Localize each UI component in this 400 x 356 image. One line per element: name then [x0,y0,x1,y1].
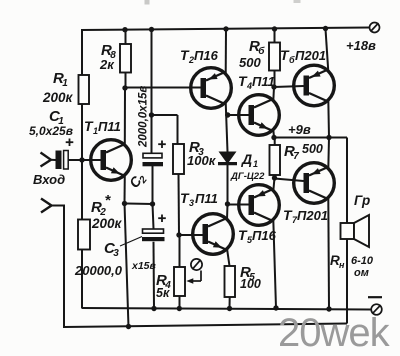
node T4e/R7 [271,135,276,140]
resistor R4 [174,235,185,309]
wire T7 collector to ground rail [327,198,330,310]
node T1e chassis rail [126,324,131,329]
label R8 value [99,42,116,72]
svg-text:20wek: 20wek [278,311,391,355]
terminal -18V ground [368,297,382,315]
wire T1e to C3 node [125,203,153,206]
node junction R1/C1/R2 [79,157,84,162]
label R1 value [42,70,74,105]
svg-text:1: 1 [62,78,68,89]
node R6/T6 base/T4 collector [271,84,276,89]
svg-text:5к: 5к [156,286,170,300]
label T7 type [283,207,328,225]
node T3 base/R3/R4 [176,232,181,237]
svg-text:500: 500 [302,142,323,156]
label +9V [288,122,311,137]
wire speaker to lower rail [346,239,348,324]
node R8/T1 collector/T2 base [122,85,127,90]
resistor R7 [270,138,281,179]
label R3 value [187,139,217,168]
svg-text:Гр: Гр [354,193,370,208]
label C1 value [29,108,73,138]
wire T3 emitter to R5 [227,249,230,267]
wire T5 emitter to rail [273,220,276,309]
svg-text:П201: П201 [297,208,328,223]
wire T3 collector [226,204,229,220]
node T5e rail [273,305,278,310]
wire T5 collector [273,178,274,191]
node C3 rail [151,306,156,311]
node C2/C3 junction [150,201,155,206]
wire T3 base [179,234,203,236]
svg-text:+9в: +9в [288,122,311,137]
svg-text:ДГ-Ц22: ДГ-Ц22 [230,171,265,182]
wire +9V output node [274,138,347,224]
wire T1 collector [124,88,126,147]
label R7 value [284,142,323,162]
node T6c/T7e [326,135,331,140]
svg-text:ом: ом [354,267,369,279]
svg-text:н: н [339,260,345,270]
wire ground rail (upper) [82,308,371,310]
label Rn load [330,253,345,270]
svg-text:Д: Д [241,151,252,167]
speaker Gr [341,215,370,247]
wire left vertical (R1/R2 branch) [81,30,83,309]
transistor T4 [239,95,280,136]
svg-text:П16: П16 [194,48,219,63]
node top rail C2 [149,27,154,32]
svg-text:5,0х25в: 5,0х25в [29,124,73,138]
wire R3 to T3 base node [178,174,181,235]
wire input ground to lower rail [51,205,65,329]
wire chassis rail (lower) [64,324,347,328]
wire T2 collector to diode [226,103,228,152]
label R6 value [239,38,265,70]
svg-text:П11: П11 [252,74,275,89]
svg-text:7: 7 [293,151,299,162]
svg-text:2000,0х15в: 2000,0х15в [138,86,150,148]
svg-text:х15в: х15в [131,260,157,272]
svg-text:6-10: 6-10 [351,255,374,267]
input terminal upper arrow [41,153,52,167]
label C2 [126,169,150,193]
node top rail T2e [223,26,228,31]
svg-text:П16: П16 [252,228,277,243]
svg-text:20000,0: 20000,0 [74,263,123,278]
label T4 type [238,73,275,91]
wire faint crop mark left [145,0,150,5]
watermark 20wek [278,311,391,355]
resistor R8 [120,30,131,88]
terminal +18V [370,23,380,33]
svg-text:Вход: Вход [33,172,65,187]
resistor R1 [79,75,90,104]
label R5 value [240,264,261,291]
label D1 [241,151,258,169]
transistor T6 [294,65,335,106]
label +18V [346,38,376,53]
wire T2 base [125,87,201,89]
node T4 base tap [225,112,230,117]
label C3 [104,237,142,260]
label T3 type [180,190,218,208]
node top rail T6e [323,26,328,31]
resistor R3 [173,144,184,174]
node C2/R3 tap [149,112,154,117]
wire top +18V rail [81,28,370,31]
svg-text:200к: 200к [91,216,123,231]
transistor T5 [239,185,280,226]
svg-text:500: 500 [239,55,261,70]
wire T7 base [275,179,304,182]
wire T5 base [228,204,249,206]
wire R3 top [152,115,178,144]
label Vhod input [33,172,65,187]
label D1 type [230,171,265,182]
potentiometer mark R4 [186,259,202,284]
node R4 rail [177,306,182,311]
svg-text:3: 3 [189,198,194,208]
input terminal lower arrow [41,199,52,213]
node T7c rail [326,306,331,311]
label load value [351,255,374,279]
wire T6 collector to output node [327,100,330,138]
label C3 value [74,260,157,278]
node R7/T5 collector/T7 base [272,175,277,180]
capacitor C1 [56,139,74,170]
wire C2 bottom to node [152,166,154,204]
diode D1 [218,152,237,165]
label T1 type [84,118,121,136]
node T5 base/T3 collector [225,201,230,206]
capacitor C3 [142,215,166,242]
capacitor C2 [143,141,166,167]
label R4 value [156,272,171,300]
wire input to C1 [50,159,56,161]
resistor R5 [225,266,236,309]
transistor T2 [191,68,232,109]
wire T6 base [274,86,304,87]
svg-text:100: 100 [240,277,261,291]
wire node to C3 [153,204,154,229]
node T1 emitter junction [122,201,127,206]
transistor T7 [294,163,335,204]
wire T2 emitter to rail [225,30,227,75]
label T2 type [180,47,219,65]
wire T6 emitter to rail [326,29,329,72]
label C2 value vertical [138,86,150,148]
svg-text:2к: 2к [99,57,115,72]
node top rail R6 [272,26,277,31]
label T6 type [280,47,326,65]
wire T4 base [228,114,249,116]
svg-text:П201: П201 [295,48,326,63]
wire +18 rail to C2 [151,30,153,154]
node R5 rail [227,306,232,311]
wire T4 emitter [272,130,275,138]
wire T4 collector [272,87,275,101]
wire faint crop mark right [294,0,301,3]
svg-text:П11: П11 [195,191,218,206]
label T5 type [238,227,277,245]
wire diode to T3 collector node [227,164,229,204]
svg-text:1: 1 [253,159,258,169]
svg-text:100к: 100к [187,153,217,168]
resistor R2 [78,220,90,250]
svg-text:П11: П11 [98,119,121,134]
label R2 value [91,192,123,231]
wire T7 emitter [327,138,330,170]
svg-text:3: 3 [113,248,119,259]
svg-text:+18в: +18в [346,38,376,53]
transistor T1 [91,140,132,181]
wire T1 emitter [125,174,129,327]
resistor R6 [269,29,280,87]
transistor T3 [193,214,234,255]
label Gr speaker [354,193,370,208]
wire C1 to T1 base [68,159,101,161]
svg-text:200к: 200к [42,90,74,105]
node top rail R8 [122,27,127,32]
wire C3 to ground rail [153,242,156,309]
